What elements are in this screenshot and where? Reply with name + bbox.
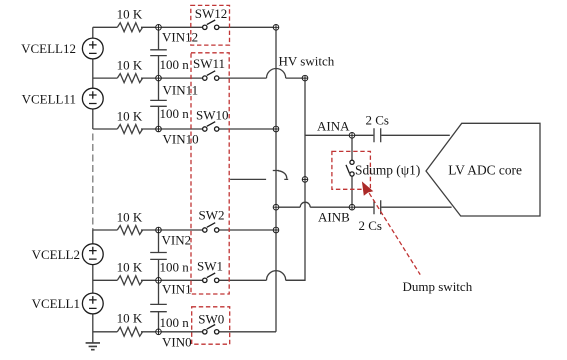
svg-text:SW1: SW1 [197,259,223,274]
svg-text:2 Cs: 2 Cs [366,112,389,127]
svg-text:VIN0: VIN0 [162,335,192,350]
svg-text:10 K: 10 K [117,109,143,124]
svg-text:10 K: 10 K [117,7,143,22]
svg-text:VIN11: VIN11 [163,83,199,98]
svg-text:AINA: AINA [317,119,350,134]
svg-text:VIN12: VIN12 [162,29,198,44]
svg-text:LV ADC core: LV ADC core [448,163,522,178]
svg-text:SW2: SW2 [199,208,225,223]
svg-text:SW12: SW12 [195,6,228,21]
svg-text:VIN1: VIN1 [162,282,192,297]
svg-text:SW11: SW11 [193,56,225,71]
svg-text:VCELL12: VCELL12 [21,41,76,56]
svg-text:Dump switch: Dump switch [403,279,473,294]
svg-text:10 K: 10 K [117,58,143,73]
svg-text:VCELL2: VCELL2 [32,247,80,262]
svg-text:VCELL1: VCELL1 [32,296,80,311]
svg-text:100 n: 100 n [160,57,190,72]
svg-text:10 K: 10 K [117,311,143,326]
svg-text:100 n: 100 n [160,106,190,121]
svg-text:SW0: SW0 [198,311,224,326]
svg-text:100 n: 100 n [160,259,190,274]
svg-text:VIN10: VIN10 [163,132,199,147]
svg-text:VIN2: VIN2 [162,233,192,248]
svg-text:VCELL11: VCELL11 [22,91,76,106]
svg-text:HV switch: HV switch [279,53,335,68]
svg-text:100 n: 100 n [160,315,190,330]
svg-text:2 Cs: 2 Cs [359,218,382,233]
svg-text:10 K: 10 K [117,259,143,274]
svg-text:10 K: 10 K [117,210,143,225]
svg-text:SW10: SW10 [196,108,229,123]
svg-text:Sdump (ψ1): Sdump (ψ1) [355,162,420,177]
svg-text:AINB: AINB [318,210,350,225]
